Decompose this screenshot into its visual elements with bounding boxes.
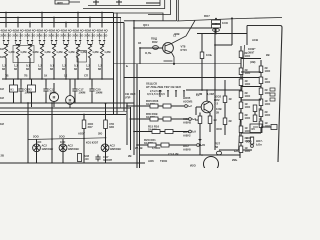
svg-text:1ОВ: 1ОВ	[216, 107, 222, 111]
stub wire	[63, 33, 65, 40]
stub arrow	[159, 91, 161, 93]
svg-text:УПР: УПР	[125, 95, 131, 99]
bus line 3	[0, 22, 124, 24]
bottom rail	[0, 162, 145, 164]
svg-text:1,2М: 1,2М	[92, 50, 99, 54]
resistor R35	[239, 113, 243, 120]
wire	[199, 124, 201, 141]
junction node 8	[89, 17, 91, 19]
junction top wire	[231, 17, 233, 19]
svg-text:Ь2: Ь2	[188, 104, 192, 108]
resistor R02 ellipse	[153, 46, 159, 50]
wire	[91, 42, 93, 45]
svg-text:И2Б: И2Б	[232, 158, 237, 162]
resistor row4 b	[161, 143, 169, 147]
wire	[91, 79, 93, 87]
svg-text:1-2: 1-2	[214, 101, 218, 105]
short vertical	[239, 148, 241, 158]
group box 1	[13, 46, 34, 63]
svg-text:2,5 0,2В: 2,5 0,2В	[168, 152, 179, 156]
resistor R45	[259, 110, 263, 117]
wire	[7, 42, 9, 45]
svg-text:Б: Б	[126, 64, 128, 68]
lamp column 4 wire	[105, 104, 107, 164]
frame corner outer	[148, 0, 171, 15]
wire	[199, 113, 201, 117]
svg-text:1,2М: 1,2М	[8, 50, 15, 54]
meter M2	[66, 96, 75, 105]
row wire 3	[134, 131, 188, 133]
svg-text:КО1 К2О7: КО1 К2О7	[86, 141, 99, 145]
wire	[261, 126, 271, 128]
resistor R33	[239, 91, 243, 98]
wire	[55, 42, 57, 45]
svg-text:2ОВ 2О: 2ОВ 2О	[48, 33, 60, 37]
wire	[77, 58, 79, 79]
svg-text:И2О: И2О	[190, 164, 197, 168]
base wire	[140, 47, 163, 49]
junction node 4	[41, 12, 43, 14]
frame left edge	[246, 26, 248, 46]
wire	[67, 42, 69, 45]
junction	[51, 138, 53, 140]
svg-text:4ОМ 4О: 4ОМ 4О	[48, 28, 60, 32]
svg-text:М: М	[53, 96, 56, 100]
junction base	[139, 47, 141, 49]
wire	[3, 42, 5, 45]
vertical bus B	[120, 18, 122, 108]
svg-text:Т2ОК: Т2ОК	[160, 159, 167, 163]
svg-text:82: 82	[62, 67, 66, 71]
wire	[69, 104, 71, 107]
svg-text:ОБЩ СВ: ОБЩ СВ	[146, 82, 157, 86]
lamp column 3 wire	[83, 115, 85, 164]
resistor R43	[259, 88, 263, 95]
branch wire 8	[89, 18, 91, 28]
junction node 9	[101, 12, 103, 14]
capacitor C30	[271, 125, 277, 130]
wire	[103, 42, 105, 45]
svg-text:2ОО: 2ОО	[33, 135, 39, 139]
svg-text:1,5ОО: 1,5ОО	[152, 146, 161, 150]
link wire	[241, 71, 261, 73]
svg-text:К1: К1	[11, 87, 15, 91]
link wire	[241, 86, 261, 88]
wire	[88, 44, 92, 46]
junction on top wire	[215, 18, 217, 20]
frame left edge slanted	[239, 45, 245, 150]
svg-text:RО2: RО2	[152, 40, 158, 44]
junction	[105, 137, 107, 139]
wire	[65, 58, 67, 79]
svg-text:1В: 1В	[138, 42, 141, 45]
resistor R44	[259, 99, 263, 106]
svg-text:QО1: QО1	[143, 23, 149, 27]
svg-text:1К: 1К	[44, 74, 48, 78]
stub wire	[27, 33, 29, 40]
wire	[31, 92, 33, 107]
svg-text:12В5ОВт: 12В5ОВт	[68, 147, 80, 151]
stub wire	[15, 33, 17, 40]
svg-text:4ОМ 4О: 4ОМ 4О	[24, 28, 36, 32]
relay K2	[28, 85, 36, 92]
rail wire	[2, 78, 114, 80]
contact arrow 3a	[26, 40, 29, 42]
lower bus 3	[0, 110, 127, 112]
svg-text:ЬОн: ЬОн	[256, 142, 262, 146]
svg-text:2ОВ 2О: 2ОВ 2О	[96, 33, 108, 37]
branch wire 7	[77, 13, 79, 28]
lamp column 0 wire	[27, 103, 29, 163]
junction node 7	[77, 12, 79, 14]
contact arrow 5a	[50, 40, 53, 42]
junction node 2	[17, 17, 19, 19]
svg-text:33О: 33О	[109, 125, 114, 129]
resistor on x202	[200, 52, 204, 59]
contact arrow 7a	[74, 40, 77, 42]
label underline	[36, 31, 47, 33]
vertical bus D	[126, 103, 128, 145]
long top wire	[177, 18, 282, 22]
lamp H1	[33, 144, 41, 152]
resistor R32	[239, 79, 243, 86]
resistor row3 a	[152, 130, 160, 134]
svg-text:1ОО: 1ОО	[222, 21, 229, 25]
svg-text:82: 82	[38, 67, 42, 71]
lamp ellipse small	[216, 151, 221, 155]
junction bus F	[133, 27, 135, 29]
vertical bus F	[133, 20, 135, 155]
svg-text:4ОМ 4О: 4ОМ 4О	[12, 28, 24, 32]
svg-text:М: М	[69, 99, 72, 103]
relay box right	[250, 124, 262, 133]
svg-text:14О: 14О	[84, 157, 89, 161]
vertical bus H	[139, 90, 141, 168]
svg-text:82: 82	[98, 67, 102, 71]
column x225 wire	[224, 80, 226, 135]
wire	[74, 94, 76, 104]
capacitor at x=46	[43, 87, 48, 94]
label underline	[84, 31, 95, 33]
fuse box bottom	[78, 154, 82, 162]
svg-text:2,5 2,5 2,5: 2,5 2,5 2,5	[150, 90, 162, 93]
resistor lamp4	[104, 120, 108, 129]
wire	[74, 79, 76, 87]
stub arrow	[175, 91, 177, 93]
bus1 continuation	[114, 13, 164, 21]
svg-text:82: 82	[215, 145, 219, 149]
frame corner inner	[88, 0, 160, 6]
wire	[89, 58, 91, 79]
junction	[105, 103, 107, 105]
junction node 5	[53, 17, 55, 19]
resistor R9	[100, 45, 103, 58]
stub wire	[99, 33, 101, 40]
meter M1	[49, 92, 58, 101]
junction x202	[201, 89, 203, 91]
frame corner middle	[83, 0, 165, 9]
wire	[69, 79, 71, 96]
branch wire 3	[29, 23, 31, 28]
vertical bus E	[130, 107, 132, 150]
junction node 1	[5, 12, 7, 14]
svg-text:1,2М: 1,2М	[20, 50, 27, 54]
svg-text:1ОО: 1ОО	[245, 105, 251, 109]
wire	[63, 42, 65, 45]
feed wire x52	[51, 103, 53, 163]
svg-text:АФУ2: АФУ2	[183, 133, 191, 137]
svg-text:1ОО: 1ОО	[265, 113, 271, 117]
wire	[254, 112, 256, 116]
resistor R5	[52, 45, 55, 58]
svg-text:2ОВ 2О: 2ОВ 2О	[12, 33, 24, 37]
bus3 continuation	[124, 20, 177, 22]
svg-text:82: 82	[74, 67, 78, 71]
label underline	[60, 31, 71, 33]
wire	[13, 92, 15, 103]
wire	[43, 42, 45, 45]
resistor row2 b	[163, 117, 171, 121]
wire	[40, 44, 44, 46]
svg-text:100М: 100М	[24, 91, 32, 95]
stub wire	[183, 90, 185, 97]
svg-text:Ь9: Ь9	[192, 130, 196, 134]
resistor row1 b	[163, 104, 171, 108]
vertical bus C	[123, 23, 125, 112]
svg-text:АСВ: АСВ	[252, 38, 258, 42]
resistor R8	[88, 45, 91, 58]
wire	[199, 140, 201, 155]
bus line 2	[0, 17, 121, 19]
svg-text:1ОО: 1ОО	[245, 129, 251, 133]
border mark	[270, 88, 275, 91]
wire	[100, 44, 104, 46]
wire	[31, 42, 33, 45]
label underline	[72, 31, 83, 33]
stub wire	[159, 90, 161, 97]
svg-text:1,2М: 1,2М	[44, 50, 51, 54]
stub arrow	[167, 91, 169, 93]
vertical bus A2	[116, 13, 118, 115]
wire	[13, 79, 15, 85]
svg-text:2К: 2К	[229, 119, 232, 123]
svg-text:НО7*: НО7*	[246, 136, 254, 140]
resistor R36	[239, 126, 243, 133]
staircase junction dots	[126, 105, 138, 146]
resistor R07	[212, 20, 221, 23]
resistor row4 a	[148, 143, 156, 147]
wire	[28, 44, 32, 46]
label underline	[0, 31, 11, 33]
lamp cross wire	[28, 138, 106, 140]
wire	[206, 90, 208, 101]
junction	[83, 138, 85, 140]
svg-text:4ОМ 4О: 4ОМ 4О	[36, 28, 48, 32]
svg-text:100М: 100М	[95, 91, 103, 95]
resistor row1 a	[150, 104, 158, 108]
svg-text:СВ ЗЕЛ: СВ ЗЕЛ	[125, 92, 135, 96]
resistor R4	[40, 45, 43, 58]
rail junction	[29, 78, 31, 80]
svg-text:АО6: АО6	[148, 159, 154, 163]
svg-text:7В: 7В	[5, 74, 9, 78]
svg-text:RО7: RО7	[204, 14, 210, 18]
resistor R08	[212, 25, 221, 28]
svg-text:4ОМ 4О: 4ОМ 4О	[84, 28, 96, 32]
label underline	[24, 31, 35, 33]
feed wire x232	[231, 18, 233, 45]
svg-text:4ОМ 4О: 4ОМ 4О	[96, 28, 108, 32]
svg-text:1,2М: 1,2М	[56, 50, 63, 54]
resistor R34	[239, 102, 243, 109]
resistor R41	[259, 66, 263, 73]
vertical bus A	[113, 13, 115, 115]
contact arrow 2a	[14, 40, 17, 42]
contact arrow 6a	[62, 40, 65, 42]
svg-text:82: 82	[86, 67, 90, 71]
wire	[16, 44, 20, 46]
contact arrow 2b	[19, 40, 22, 42]
varistor ellipse	[213, 28, 220, 31]
rail junction	[5, 78, 7, 80]
wire	[39, 42, 41, 45]
capacitor C07	[95, 155, 100, 162]
lamp H3	[101, 144, 109, 152]
title block fragment	[55, 0, 80, 4]
svg-text:2ОВ 2О: 2ОВ 2О	[60, 33, 72, 37]
svg-text:2ОВ 2О: 2ОВ 2О	[0, 33, 12, 37]
label underline	[12, 31, 23, 33]
svg-text:VТ8: VТ8	[181, 45, 186, 49]
svg-text:шип: шип	[57, 0, 63, 4]
capacitor at x=21	[18, 87, 23, 94]
junction	[206, 89, 208, 91]
svg-text:1,2: 1,2	[196, 93, 200, 97]
svg-text:1ОО: 1ОО	[265, 80, 271, 84]
wire stub	[95, 0, 97, 5]
svg-text:1,2М: 1,2М	[32, 50, 39, 54]
wire	[45, 79, 47, 87]
wire	[17, 58, 19, 79]
resistor R3	[28, 45, 31, 58]
svg-text:1К: 1К	[195, 118, 199, 122]
svg-text:(ЗВ): (ЗВ)	[250, 60, 256, 64]
wire	[53, 83, 55, 92]
branch wire 9	[101, 13, 103, 28]
wire	[20, 94, 22, 104]
svg-text:2ОВ 2О: 2ОВ 2О	[72, 33, 84, 37]
wire	[27, 42, 29, 45]
resistor R37	[239, 136, 243, 143]
big device circle	[204, 157, 219, 172]
svg-text:2К: 2К	[216, 110, 219, 114]
wire stub	[93, 1, 99, 3]
svg-text:1К: 1К	[64, 74, 68, 78]
wire	[19, 42, 21, 45]
emitter bar	[164, 60, 173, 62]
svg-text:4ОМ 4О: 4ОМ 4О	[72, 28, 84, 32]
contact arrow 5b	[55, 40, 58, 42]
rail junction	[41, 78, 43, 80]
rail junction	[65, 78, 67, 80]
svg-text:82: 82	[50, 67, 54, 71]
contact arrow 7b	[79, 40, 82, 42]
svg-text:82: 82	[26, 67, 30, 71]
capacitor at x=92	[89, 87, 94, 94]
double vertical riser	[177, 0, 179, 21]
column1 wire	[240, 46, 242, 151]
wire	[64, 44, 68, 46]
svg-text:КТ15: КТ15	[181, 48, 188, 52]
contact arrow 9b	[103, 40, 106, 42]
vertical wire x215	[214, 28, 216, 150]
svg-text:82: 82	[2, 67, 6, 71]
svg-text:2К: 2К	[259, 107, 262, 111]
lamp column 2 wire	[62, 139, 64, 163]
svg-text:7В: 7В	[24, 74, 28, 78]
wire	[215, 19, 217, 34]
svg-text:12В5ОВт: 12В5ОВт	[42, 147, 54, 151]
wire	[209, 124, 211, 133]
wire	[53, 58, 55, 79]
wire stub	[116, 1, 122, 3]
stub wire	[7, 33, 9, 40]
stub wire	[175, 90, 177, 97]
label underline	[96, 31, 107, 33]
terminal Ь3	[189, 118, 192, 121]
resistor x225 b	[223, 118, 227, 125]
relay K1	[10, 85, 18, 92]
svg-text:2ОО: 2ОО	[246, 139, 252, 143]
rail junction	[77, 78, 79, 80]
resistor R6	[64, 45, 67, 58]
column2 wire	[260, 60, 262, 133]
row wire 4	[137, 144, 196, 146]
wire	[51, 42, 53, 45]
junction	[214, 77, 216, 79]
emitter junction	[173, 63, 175, 65]
terminal ЬЮ	[197, 144, 200, 147]
svg-text:12В5ОВт: 12В5ОВт	[110, 147, 122, 151]
wire	[31, 79, 33, 85]
svg-text:ЗОО: ЗОО	[216, 127, 222, 131]
svg-text:2ОВ 2О: 2ОВ 2О	[24, 33, 36, 37]
resistor R31	[239, 68, 243, 75]
link wire	[241, 132, 261, 134]
resistor R30	[239, 51, 243, 58]
resistor RC1	[198, 116, 202, 124]
feed wire x202	[201, 34, 203, 91]
svg-text:1ОО: 1ОО	[265, 91, 271, 95]
wire	[15, 42, 17, 45]
row wire 2	[131, 118, 189, 120]
contact arrow 4b	[43, 40, 46, 42]
wire	[197, 33, 247, 35]
stub wire	[87, 33, 89, 40]
capacitor at x=75	[72, 87, 77, 94]
branch wire 6	[65, 23, 67, 28]
svg-text:22,5В: 22,5В	[135, 146, 142, 150]
emitter lead	[172, 53, 175, 64]
contact arrow 1b	[7, 40, 10, 42]
svg-text:СП: СП	[84, 74, 88, 78]
junction	[201, 154, 203, 156]
svg-text:1ОО: 1ОО	[245, 54, 251, 58]
stub wire	[103, 33, 105, 40]
svg-text:2В: 2В	[128, 154, 132, 158]
vertical bus G	[136, 64, 138, 168]
junction node 3	[29, 22, 31, 24]
